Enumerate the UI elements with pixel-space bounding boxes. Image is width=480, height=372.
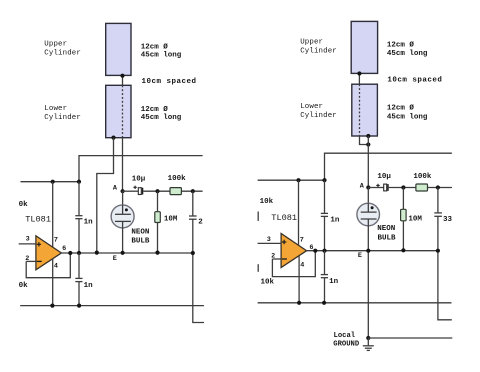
svg-text:12cm Ø: 12cm Ø <box>387 104 415 113</box>
resistor 100k L <box>170 188 181 195</box>
label minus input L <box>37 260 42 262</box>
label minus input R <box>282 258 287 260</box>
wire 1n to E line R <box>324 216 326 250</box>
wire ground row R <box>368 337 452 339</box>
wire upper cylinder to node A <box>122 138 124 192</box>
svg-text:33: 33 <box>443 216 453 224</box>
capacitor 1n upper L <box>75 215 82 217</box>
node E lower-cylinder junction L <box>95 251 99 255</box>
svg-text:2: 2 <box>271 252 275 260</box>
svg-text:4: 4 <box>300 262 304 270</box>
svg-text:6: 6 <box>62 245 66 253</box>
svg-text:NEON: NEON <box>131 229 149 237</box>
node E cap33 junction R <box>436 249 440 253</box>
wire upper cylinder jog to junction R <box>360 136 369 145</box>
node bottom rail pin4 L <box>50 304 54 308</box>
node mid rail pin7 junction L <box>51 180 55 184</box>
wire neon top lead L <box>122 191 124 214</box>
wire 1n lower column L <box>78 253 80 278</box>
label plus polarity L <box>133 186 136 189</box>
wire 1n to E line L <box>78 219 80 253</box>
svg-text:Local: Local <box>334 332 356 340</box>
wire pin2 stub R <box>272 258 281 260</box>
wire neon bottom to ground dot R <box>367 219 369 338</box>
wire mid rail L <box>21 181 80 183</box>
svg-text:7: 7 <box>54 237 58 245</box>
node lower cylinder terminal L <box>111 136 115 140</box>
node lower cylinder terminal R <box>366 134 370 138</box>
svg-text:0k: 0k <box>19 282 29 290</box>
wire cap33 down and stub R <box>438 217 452 320</box>
node E 10M junction R <box>401 248 405 252</box>
wire bottom rail R <box>258 302 452 304</box>
svg-text:NEON: NEON <box>377 225 395 233</box>
resistor 100k R <box>416 184 428 191</box>
wire 1n column upper L <box>78 182 80 216</box>
node A junction L <box>121 189 125 193</box>
node A row cap junction L <box>191 189 195 193</box>
svg-text:10k: 10k <box>261 279 275 287</box>
capacitor 2 L <box>189 215 197 217</box>
wire neon top lead R <box>367 188 369 213</box>
capacitor 33 R <box>434 212 442 214</box>
neon bulb R <box>357 203 380 226</box>
wire cap to 10M node L <box>143 190 170 192</box>
wire 100k to end R <box>428 187 452 189</box>
wire 1n column upper R <box>324 180 326 213</box>
wire cap33 column upper R <box>437 188 439 214</box>
node E 10M junction L <box>155 251 159 255</box>
wire neon bottom lead L <box>122 221 124 253</box>
svg-text:12cm Ø: 12cm Ø <box>141 42 169 51</box>
wire 1n lower to bottom rail R <box>324 278 326 303</box>
node A row 10M junction R <box>401 185 405 189</box>
wire cap2 down and stub L <box>193 219 204 322</box>
wire through lower cylinder R <box>359 84 361 136</box>
svg-text:TL081: TL081 <box>271 213 297 223</box>
svg-text:100k: 100k <box>168 175 187 183</box>
node upper cylinder terminal L <box>120 74 124 78</box>
wire node A to cap L <box>123 190 138 192</box>
wire through lower cylinder L <box>122 85 124 137</box>
wire cylinders to node A R <box>367 136 369 188</box>
upper cylinder L <box>106 23 131 75</box>
svg-text:Cylinder: Cylinder <box>300 112 337 120</box>
wire mid rail R <box>258 179 325 181</box>
op-amp U1 R <box>281 234 307 268</box>
node E neon junction L <box>121 251 125 255</box>
svg-text:A: A <box>113 184 118 192</box>
wire pin4 column L <box>52 259 54 306</box>
neon bulb L <box>111 205 134 228</box>
svg-text:BULB: BULB <box>131 237 150 245</box>
svg-text:E: E <box>113 255 117 263</box>
node bottom rail pin4 R <box>297 301 301 305</box>
wire 1n lower to bottom rail L <box>78 282 80 306</box>
wire pin2 stub L <box>26 260 36 262</box>
svg-text:45cm long: 45cm long <box>141 52 182 60</box>
wire 10M to E line R <box>402 221 404 251</box>
svg-text:10cm spaced: 10cm spaced <box>142 78 197 86</box>
svg-text:10M: 10M <box>408 215 422 223</box>
lower cylinder L <box>106 85 131 137</box>
capacitor 10u R <box>384 184 387 191</box>
node mid rail pin7 junction R <box>296 178 300 182</box>
wire E line R <box>307 250 439 252</box>
svg-text:Lower: Lower <box>300 103 323 111</box>
node A junction R <box>366 185 370 189</box>
svg-text:100k: 100k <box>413 173 432 181</box>
wire node A to cap R <box>368 187 383 189</box>
node A row 10M junction L <box>155 189 159 193</box>
node local ground junction R <box>366 336 370 340</box>
svg-text:45cm long: 45cm long <box>387 50 428 58</box>
wire bottom rail L <box>20 305 204 307</box>
svg-text:12cm Ø: 12cm Ø <box>387 41 415 50</box>
wire pin7 column R <box>298 180 300 245</box>
svg-text:1n: 1n <box>84 282 94 290</box>
node E neon junction R <box>366 249 370 253</box>
svg-text:3: 3 <box>26 236 30 244</box>
svg-text:A: A <box>360 182 365 190</box>
node mid rail 1n junction R <box>322 178 326 182</box>
wire cap2 column upper L <box>192 191 194 215</box>
label plus input R <box>282 240 286 244</box>
wire 1n lower column R <box>324 251 326 275</box>
svg-text:45cm long: 45cm long <box>141 114 182 122</box>
svg-text:Lower: Lower <box>44 105 67 113</box>
wire feedback loop R <box>272 251 315 277</box>
svg-text:Cylinder: Cylinder <box>44 50 81 58</box>
svg-text:45cm long: 45cm long <box>387 114 428 122</box>
label plus input L <box>37 242 41 246</box>
wire cap to 10M node R <box>389 187 416 189</box>
svg-text:12cm Ø: 12cm Ø <box>141 105 169 114</box>
node E 1n junction L <box>77 251 81 255</box>
svg-text:1n: 1n <box>84 219 94 227</box>
node E cap2 junction L <box>191 251 195 255</box>
svg-text:Cylinder: Cylinder <box>300 48 337 56</box>
node bottom rail 1n L <box>77 304 81 308</box>
node A row cap junction R <box>436 185 440 189</box>
svg-text:Upper: Upper <box>300 38 323 46</box>
svg-text:0k: 0k <box>19 201 29 209</box>
svg-text:Cylinder: Cylinder <box>44 114 81 122</box>
wire pin3 stub R <box>258 242 282 244</box>
wire upper cylinder lead L <box>122 76 124 86</box>
wire feedback stub cut R <box>257 264 259 272</box>
svg-text:1n: 1n <box>329 278 339 286</box>
ground symbol R <box>363 338 374 350</box>
node E 1n junction R <box>322 249 326 253</box>
svg-text:10µ: 10µ <box>132 176 146 184</box>
wire input stub cut R <box>257 212 259 221</box>
op-amp U1 L <box>36 236 62 270</box>
svg-text:GROUND: GROUND <box>333 340 360 348</box>
node mid rail 1n junction L <box>77 180 81 184</box>
capacitor 1n upper R <box>321 212 328 214</box>
wire top rail R <box>325 153 452 180</box>
svg-text:TL081: TL081 <box>25 215 51 225</box>
wire pin4 column R <box>298 256 300 303</box>
wire pin3 stub L <box>19 243 36 245</box>
wire E line L <box>61 252 192 254</box>
svg-text:2: 2 <box>198 219 203 227</box>
resistor 10M R <box>401 209 407 221</box>
svg-text:1n: 1n <box>330 217 340 225</box>
svg-text:E: E <box>358 252 362 260</box>
wire 10M column L <box>157 191 159 212</box>
svg-text:10cm spaced: 10cm spaced <box>387 77 442 85</box>
wire 10M column R <box>402 188 404 210</box>
svg-text:BULB: BULB <box>378 235 397 243</box>
wire pin7 column L <box>52 182 54 248</box>
node output feedback junction L <box>68 251 72 255</box>
wire top rail L <box>79 156 203 182</box>
capacitor 1n lower R <box>321 274 328 276</box>
resistor 10M L <box>155 212 161 223</box>
wire 100k to end L <box>181 190 202 192</box>
node upper cylinder terminal R <box>357 71 361 75</box>
svg-text:4: 4 <box>54 262 58 270</box>
wire feedback loop L <box>26 253 70 278</box>
wire 10M to E line L <box>157 223 159 254</box>
svg-text:10k: 10k <box>260 198 274 206</box>
label plus polarity R <box>376 184 379 187</box>
svg-text:10µ: 10µ <box>377 173 391 181</box>
capacitor 10u L <box>138 188 141 195</box>
upper cylinder R <box>351 21 377 73</box>
node bottom rail 1n R <box>322 301 326 305</box>
wire upper cylinder lead R <box>358 74 360 85</box>
lower cylinder R <box>352 84 378 136</box>
wire lower cylinder jog to node E <box>97 138 114 253</box>
svg-text:Upper: Upper <box>44 41 67 49</box>
node cylinder merge junction R <box>366 142 370 146</box>
svg-text:3: 3 <box>267 236 271 244</box>
svg-text:7: 7 <box>300 237 304 245</box>
svg-text:10M: 10M <box>164 216 178 224</box>
node output feedback junction R <box>313 249 317 253</box>
capacitor 1n lower L <box>75 277 82 279</box>
